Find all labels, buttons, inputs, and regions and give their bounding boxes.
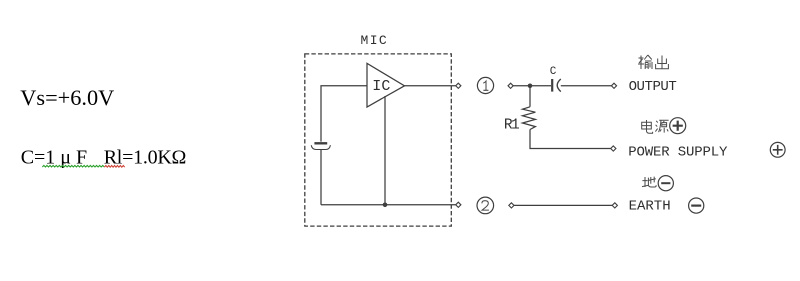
op-amp U1 triangle	[367, 63, 405, 107]
wire op-amp ground pin	[384, 96, 386, 205]
polarity minus circled right of EARTH	[689, 198, 704, 213]
terminal diamond OUTPUT	[611, 83, 616, 88]
svg-text:OUTPUT: OUTPUT	[629, 79, 677, 95]
polarity plus circled right of POWER SUPPLY	[770, 142, 785, 157]
terminal diamond earth line start	[509, 203, 514, 208]
svg-text:Rl=1.0KΩ: Rl=1.0KΩ	[104, 146, 186, 168]
node 2 circle	[477, 197, 494, 214]
junction dot bottom rail	[383, 203, 388, 208]
electret capsule bowl	[311, 145, 330, 149]
label chu (Chinese output char2)	[656, 56, 669, 69]
svg-text:R1: R1	[504, 118, 519, 134]
terminal diamond box bottom	[456, 202, 461, 207]
terminal diamond POWER SUPPLY	[611, 146, 616, 151]
polarity plus circled after dianyuan	[670, 118, 686, 134]
resistor R1 zigzag	[523, 107, 536, 130]
terminal diamond box output	[456, 83, 461, 88]
capacitor C right plate curved	[557, 79, 561, 92]
MIC enclosure dashed box	[305, 54, 452, 226]
label yuan (Chinese power char2)	[655, 120, 668, 132]
wire input horizontal	[321, 86, 367, 142]
terminal diamond output line start	[508, 83, 513, 88]
wire earth	[514, 204, 612, 206]
wire capacitor to OUTPUT terminal	[561, 85, 612, 87]
label shu (Chinese output char1)	[638, 55, 652, 69]
electret capsule top plate	[314, 142, 327, 144]
capacitor C left plate	[551, 79, 553, 92]
svg-text:MIC: MIC	[361, 33, 389, 48]
wire bottom rail	[321, 204, 456, 206]
svg-text:Vs=+6.0V: Vs=+6.0V	[20, 85, 114, 110]
junction dot R1 top	[528, 84, 533, 89]
node 1 circle	[477, 77, 493, 93]
wire capsule to bottom rail	[320, 150, 322, 205]
svg-text:EARTH: EARTH	[629, 198, 671, 214]
svg-text:C=1 μ F: C=1 μ F	[21, 146, 87, 168]
polarity minus circled after di	[658, 176, 673, 191]
wire R1 bottom to POWER SUPPLY terminal	[530, 130, 611, 149]
label dian (Chinese power char1)	[642, 120, 653, 133]
terminal diamond EARTH	[612, 203, 617, 208]
spellcheck squiggle green	[42, 165, 104, 167]
svg-text:POWER SUPPLY: POWER SUPPLY	[628, 144, 728, 160]
label di (Chinese earth)	[642, 177, 656, 187]
svg-text:IC: IC	[372, 78, 390, 95]
wire node1 to capacitor	[513, 85, 551, 87]
wire op-amp output	[405, 85, 456, 87]
spellcheck squiggle red	[104, 166, 124, 168]
svg-text:C: C	[550, 66, 557, 78]
wire R1 top lead	[529, 86, 531, 107]
